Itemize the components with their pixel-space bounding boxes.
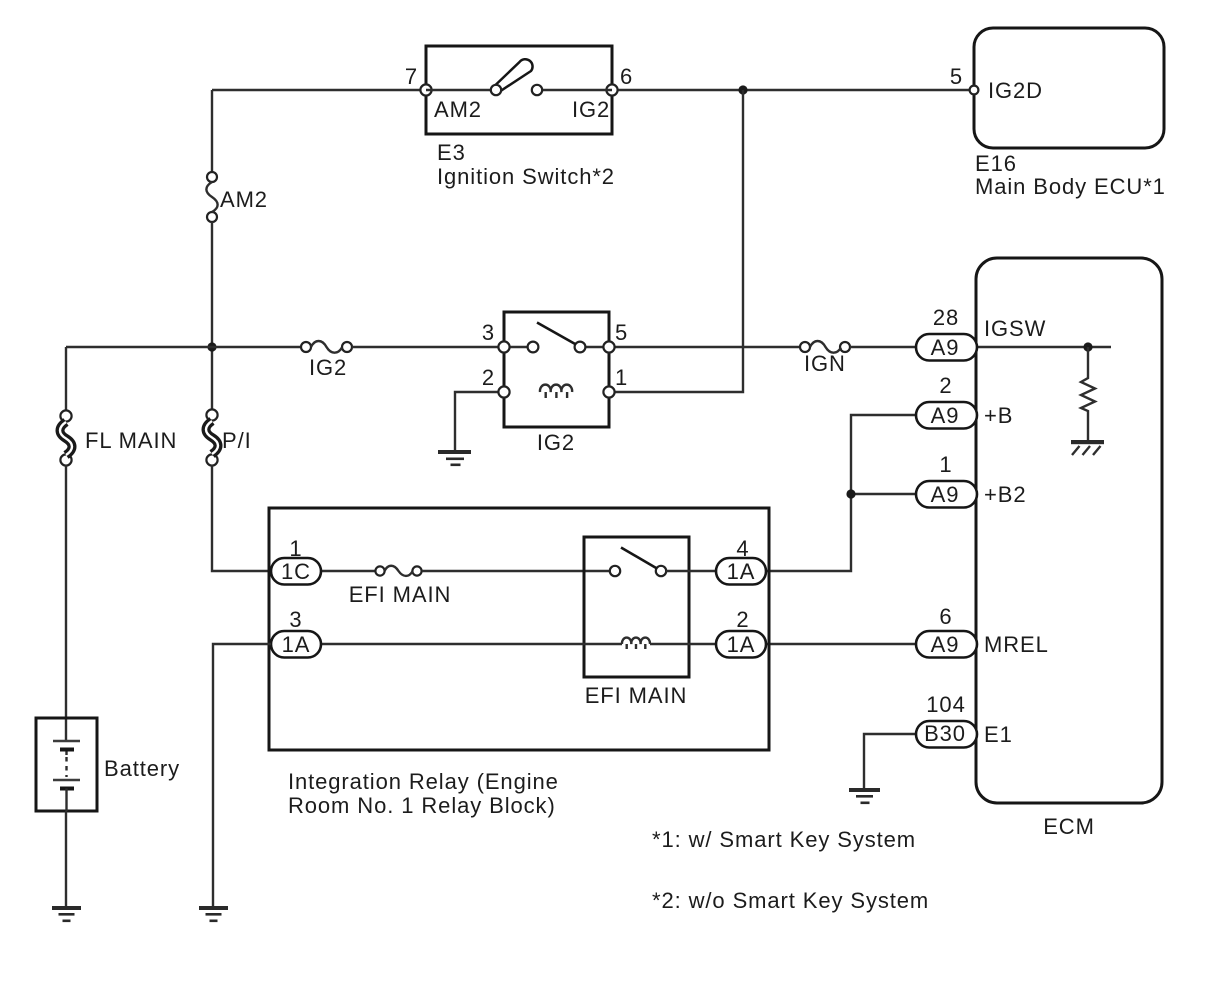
integration relay box <box>269 508 769 750</box>
svg-text:*1: w/ Smart Key System: *1: w/ Smart Key System <box>652 827 916 852</box>
svg-text:*2: w/o Smart Key System: *2: w/o Smart Key System <box>652 888 929 913</box>
relay IG2 contact left <box>528 342 539 353</box>
svg-text:1A: 1A <box>727 632 756 657</box>
pin 5 terminal of E16 <box>970 86 979 95</box>
relay IG2 coil <box>540 385 572 398</box>
wire contact to pin 5 inside IG2 relay <box>580 346 609 348</box>
wire battery negative to ground <box>65 811 67 906</box>
relay EFI MAIN switch blade <box>621 548 657 569</box>
svg-text:+B: +B <box>984 403 1013 428</box>
wire relay coil to pin 2 <box>650 643 716 645</box>
svg-text:+B2: +B2 <box>984 482 1026 507</box>
switch contact left in E3 <box>491 85 501 95</box>
pin 2 terminal of IG2 relay <box>498 386 509 397</box>
pin 3 terminal of IG2 relay <box>498 341 509 352</box>
pin 5 terminal of IG2 relay <box>603 341 614 352</box>
relay EFI MAIN coil <box>622 638 650 649</box>
wire MREL from relay pin 2 to ECM <box>766 643 918 645</box>
svg-text:E1: E1 <box>984 722 1013 747</box>
svg-text:7: 7 <box>405 64 418 89</box>
svg-text:IGSW: IGSW <box>984 316 1046 341</box>
connector A9 pin 1 +B2 <box>916 481 977 508</box>
svg-text:4: 4 <box>736 536 749 561</box>
wire IG2 relay pin 1 right then up to top junction <box>609 90 743 392</box>
svg-text:Ignition Switch*2: Ignition Switch*2 <box>437 164 615 189</box>
svg-text:3: 3 <box>289 607 302 632</box>
svg-text:IG2: IG2 <box>309 355 347 380</box>
svg-text:5: 5 <box>615 320 628 345</box>
connector A9 pin 2 +B <box>916 402 977 429</box>
svg-text:Room No. 1 Relay Block): Room No. 1 Relay Block) <box>288 793 556 818</box>
wire from FL MAIN down to battery <box>65 465 67 741</box>
relay IG2 contact right <box>575 342 586 353</box>
svg-text:1: 1 <box>615 365 628 390</box>
svg-text:Battery: Battery <box>104 756 180 781</box>
svg-text:AM2: AM2 <box>434 97 482 122</box>
svg-text:1A: 1A <box>282 632 311 657</box>
connector A9 pin 28 IGSW <box>916 334 977 361</box>
svg-text:5: 5 <box>950 64 963 89</box>
svg-text:1C: 1C <box>281 559 311 584</box>
svg-text:2: 2 <box>482 365 495 390</box>
relay EFI MAIN contact right <box>656 566 666 576</box>
fuse AM2 <box>206 172 217 222</box>
svg-text:MREL: MREL <box>984 632 1049 657</box>
wire left vertical to FL MAIN <box>65 347 67 411</box>
wire from AM2 vertical to ignition switch pin 7 <box>212 89 426 91</box>
relay IG2 switch blade <box>537 323 576 345</box>
wire from ignition switch pin 6 to Main Body ECU pin 5 <box>612 89 970 91</box>
wire switch contact to pin 6 in E3 <box>537 89 612 91</box>
fuse IG2 <box>301 341 352 353</box>
svg-text:28: 28 <box>933 305 959 330</box>
wire IG2 relay pin 2 to ground <box>455 392 504 450</box>
svg-text:Integration Relay (Engine: Integration Relay (Engine <box>288 769 559 794</box>
relay IG2 box <box>504 312 609 427</box>
svg-text:3: 3 <box>482 320 495 345</box>
svg-text:IGN: IGN <box>804 351 846 376</box>
fusible link P/I <box>206 409 218 465</box>
ECM internal IGSW wire <box>976 346 1111 348</box>
connector A9 pin 6 MREL <box>916 631 977 658</box>
node junction on IGSW wire <box>1083 342 1092 351</box>
wire +B2 branch <box>851 493 918 495</box>
connector 1C pin 1 <box>271 558 321 585</box>
wire +B to relay output vertical link <box>766 415 918 571</box>
svg-text:1: 1 <box>939 452 952 477</box>
connector 1A pin 3 <box>271 631 321 658</box>
wire EFI MAIN fuse to relay contact <box>422 570 610 572</box>
node junction at main horizontal bus <box>207 342 216 351</box>
svg-text:6: 6 <box>620 64 633 89</box>
connector 1A pin 4 <box>716 558 766 585</box>
svg-text:IG2: IG2 <box>572 97 610 122</box>
svg-text:FL MAIN: FL MAIN <box>85 428 177 453</box>
wire IGN fuse to ECM IGSW terminal <box>850 346 918 348</box>
node junction at +B2 branch <box>846 489 855 498</box>
svg-text:B30: B30 <box>924 721 966 746</box>
connector B30 pin 104 E1 <box>916 721 977 748</box>
svg-text:A9: A9 <box>931 335 960 360</box>
wire E1 to ground <box>864 734 918 788</box>
svg-text:IG2: IG2 <box>537 430 575 455</box>
Main Body ECU E16 box <box>974 28 1164 148</box>
svg-text:P/I: P/I <box>222 428 252 453</box>
svg-text:Main Body ECU*1: Main Body ECU*1 <box>975 174 1166 199</box>
wire 1A pin3 to relay coil <box>321 643 622 645</box>
battery box <box>36 718 97 811</box>
switch contact right in E3 <box>532 85 542 95</box>
relay EFI MAIN inner box <box>584 537 689 677</box>
svg-text:A9: A9 <box>931 403 960 428</box>
ground for ECM E1 <box>849 788 880 804</box>
wire main horizontal bus left of IG2 fuse <box>66 346 301 348</box>
ignition switch E3 box <box>426 46 612 134</box>
wire vertical battery feed top segment <box>211 90 213 172</box>
fusible link FL MAIN <box>60 410 72 465</box>
switch lever blade in E3 <box>496 59 533 90</box>
connector 1A pin 2 <box>716 631 766 658</box>
wire pin 3 to contact inside IG2 relay <box>504 346 533 348</box>
fuse EFI MAIN <box>375 566 421 576</box>
pin 7 terminal of E3 <box>420 84 431 95</box>
svg-text:1: 1 <box>289 536 302 561</box>
resistor pull-down inside ECM <box>1081 347 1095 442</box>
svg-text:104: 104 <box>926 692 965 717</box>
wire from P/I fuse down then right to relay pin 1C <box>212 465 272 571</box>
ground for IG2 relay coil <box>438 450 471 466</box>
battery cell plates <box>53 741 80 811</box>
ground for battery <box>52 906 81 922</box>
wire pin 7 to switch contact in E3 <box>426 89 496 91</box>
svg-text:IG2D: IG2D <box>988 78 1043 103</box>
svg-text:AM2: AM2 <box>220 187 268 212</box>
pin 6 terminal of E3 <box>606 84 617 95</box>
wire pin 3 1A to ground <box>213 644 271 906</box>
svg-text:1A: 1A <box>727 559 756 584</box>
svg-text:E16: E16 <box>975 151 1017 176</box>
svg-text:EFI MAIN: EFI MAIN <box>349 582 452 607</box>
svg-text:ECM: ECM <box>1043 814 1095 839</box>
wire from IG2 fuse to relay pin 3 <box>352 346 504 348</box>
wire relay contact to pin 4 <box>666 570 716 572</box>
svg-text:E3: E3 <box>437 140 466 165</box>
svg-text:6: 6 <box>939 604 952 629</box>
wire IG2 relay pin 5 to IGN fuse <box>609 346 800 348</box>
relay EFI MAIN contact left <box>610 566 620 576</box>
ECM box <box>976 258 1162 803</box>
fuse IGN <box>800 341 850 353</box>
svg-text:2: 2 <box>939 373 952 398</box>
svg-text:2: 2 <box>736 607 749 632</box>
chassis ground inside ECM <box>1071 440 1104 455</box>
wire vertical from AM2 fuse to P/I fuse <box>211 222 213 410</box>
wire 1C to EFI MAIN fuse <box>321 570 375 572</box>
svg-text:A9: A9 <box>931 482 960 507</box>
svg-text:A9: A9 <box>931 632 960 657</box>
pin 1 terminal of IG2 relay <box>603 386 614 397</box>
node junction at top wire and IG2 relay feed <box>738 85 747 94</box>
ground for relay coil return <box>199 906 228 922</box>
svg-text:EFI MAIN: EFI MAIN <box>585 683 688 708</box>
